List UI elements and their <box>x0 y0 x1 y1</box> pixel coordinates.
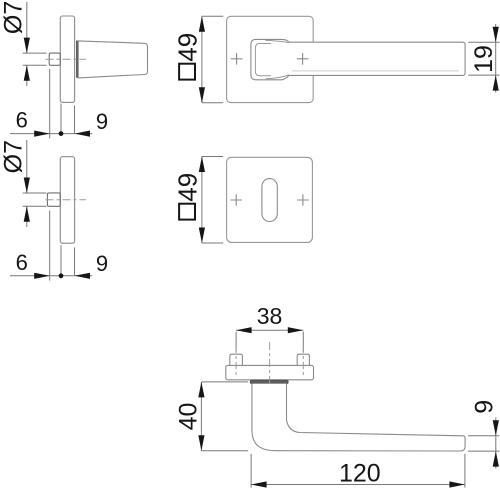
ext line top <box>23 52 47 54</box>
square rose front row1 <box>227 16 314 102</box>
arrow down <box>24 178 30 194</box>
right screw <box>297 354 309 365</box>
dim line <box>236 329 303 331</box>
junction dot <box>59 273 64 278</box>
arrow right outward <box>288 327 304 333</box>
cross mark rose row1 <box>231 53 243 65</box>
arrow down <box>199 228 205 244</box>
dim vertical line <box>26 140 28 193</box>
dim line <box>10 275 92 277</box>
arrow up <box>24 65 30 81</box>
keyhole slot <box>262 179 277 222</box>
cross mark left row2 <box>230 194 242 206</box>
ext line right <box>74 106 76 134</box>
arrow up from below <box>493 451 499 467</box>
svg-text:Ø7: Ø7 <box>0 1 28 34</box>
arrow up <box>24 206 30 222</box>
key rose side profile row2 <box>60 157 74 244</box>
centerline dash row2 <box>46 199 87 201</box>
ext line bottom <box>23 64 47 66</box>
cylinder stub row2 <box>47 193 60 206</box>
arrow up from below <box>493 75 499 91</box>
arrow left outward <box>236 327 252 333</box>
svg-text:19: 19 <box>470 45 498 73</box>
bar bottom highlight row1 <box>292 70 459 72</box>
screw centerline dash right <box>302 346 304 377</box>
dimension 6 / 9 row2 <box>10 211 108 281</box>
svg-text:49: 49 <box>173 173 203 202</box>
arrow left <box>75 273 91 279</box>
arrow right <box>34 131 50 137</box>
arrow down from above <box>493 420 499 436</box>
dimension 40 <box>175 382 248 451</box>
dimension 120 <box>251 454 465 488</box>
arrow left <box>75 131 91 137</box>
ext line bottom <box>202 102 223 104</box>
grip left face dark band row1 <box>76 41 78 78</box>
ext line mid <box>60 245 62 278</box>
left screw <box>230 354 243 365</box>
ext line right <box>464 454 466 488</box>
centerline dash row1 <box>46 58 87 60</box>
dimension square49 row1 <box>173 16 224 103</box>
lever top view silhouette <box>252 384 465 451</box>
cross mark lever row1 <box>297 53 309 65</box>
svg-text:9: 9 <box>96 109 108 134</box>
dimension 6 / 9 row1 <box>10 69 108 138</box>
dimension square49 row2 <box>173 157 224 244</box>
arrow down <box>199 87 205 103</box>
dim vertical line <box>201 157 203 244</box>
center dashed line bottom view <box>269 342 271 387</box>
ext line bottom <box>202 242 223 244</box>
neck collar dark band <box>250 380 288 383</box>
rose side profile row1 <box>60 16 74 102</box>
ext line bottom <box>201 450 248 452</box>
square key rose front row2 <box>227 157 313 242</box>
svg-text:6: 6 <box>16 108 28 133</box>
arrow left outward <box>251 481 267 487</box>
dimension 19 row1 <box>468 24 499 93</box>
dimension 38 <box>236 303 303 377</box>
square symbol <box>179 64 195 80</box>
dim line <box>10 133 92 135</box>
ext line top <box>202 156 223 158</box>
ext line top <box>23 192 47 194</box>
ext line left <box>49 69 51 138</box>
arrow down from above <box>493 27 499 43</box>
junction dot <box>59 131 64 136</box>
cross mark right row2 <box>297 194 309 206</box>
svg-text:120: 120 <box>339 460 381 488</box>
svg-text:6: 6 <box>16 250 28 275</box>
neck inner contour row1 <box>255 44 271 76</box>
ext line mid <box>60 104 62 137</box>
arrow up <box>199 157 205 173</box>
square symbol <box>179 204 195 220</box>
neck top sliver row1 <box>266 40 289 42</box>
dim vertical line <box>200 382 202 451</box>
ext line top <box>468 435 500 437</box>
screw centerline dash left <box>235 346 237 377</box>
dim line <box>251 484 465 486</box>
spindle stub row1 <box>49 53 60 65</box>
lever bar and neck silhouette row1 <box>251 39 465 79</box>
svg-text:40: 40 <box>175 403 203 431</box>
dimension Ø7 row1 <box>0 1 47 86</box>
ext line top <box>202 15 223 17</box>
svg-text:9: 9 <box>470 400 498 414</box>
arrow right <box>34 273 50 279</box>
dim vertical line <box>495 24 497 93</box>
lever grip side row1 <box>78 41 147 78</box>
svg-text:38: 38 <box>257 303 283 329</box>
dim vertical line <box>201 16 203 103</box>
arrow down <box>24 38 30 54</box>
witness line left <box>235 332 237 353</box>
svg-text:Ø7: Ø7 <box>0 140 28 173</box>
ext line left <box>49 211 51 281</box>
ext line bottom <box>468 74 499 76</box>
ext line left <box>250 454 252 488</box>
ext line bottom <box>468 450 500 452</box>
svg-text:49: 49 <box>173 33 203 62</box>
arrow up <box>198 382 204 398</box>
dimension Ø7 row2 <box>0 140 46 227</box>
ext line top <box>201 381 248 383</box>
arrow down <box>198 435 204 451</box>
ext line bottom <box>23 205 47 207</box>
witness line right <box>302 332 304 353</box>
arrow right outward <box>449 481 465 487</box>
dimension 9 bottom right <box>468 400 500 469</box>
ext line right <box>74 248 76 276</box>
arrow up <box>199 16 205 32</box>
dim vertical line <box>495 418 497 469</box>
neck bottom sliver row1 <box>266 75 289 79</box>
dim vertical line <box>26 2 28 53</box>
svg-text:9: 9 <box>96 251 108 276</box>
rose plate top view <box>226 365 314 379</box>
ext line top <box>468 41 499 43</box>
